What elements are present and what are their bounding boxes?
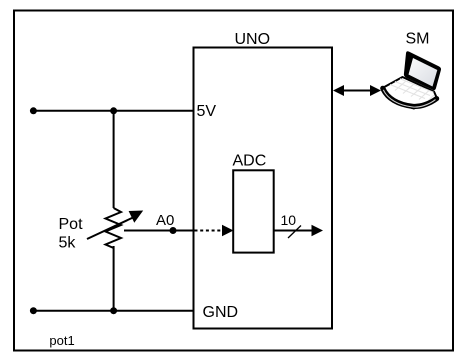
laptop base deck xyxy=(383,77,438,109)
laptop key grid xyxy=(390,79,434,102)
block UNO xyxy=(194,48,333,329)
svg-text:Pot: Pot xyxy=(59,216,84,233)
potentiometer pot1 body zigzag xyxy=(106,208,122,248)
wire UNO to serial monitor (double arrow) xyxy=(333,85,381,96)
wire wiper to A0 xyxy=(124,230,194,232)
wire pot bottom lead xyxy=(113,246,115,311)
wire dashed A0 to ADC input xyxy=(195,230,224,232)
wire GND rail xyxy=(33,310,193,312)
svg-text:10: 10 xyxy=(281,212,297,228)
laptop screen xyxy=(409,58,438,87)
wire 5V rail xyxy=(33,110,193,112)
svg-text:GND: GND xyxy=(203,304,239,321)
svg-text:5k: 5k xyxy=(59,235,77,252)
svg-text:pot1: pot1 xyxy=(49,333,74,348)
junction 5V/pot top xyxy=(110,107,117,114)
svg-text:ADC: ADC xyxy=(233,153,267,170)
svg-text:SM: SM xyxy=(406,31,430,48)
junction GND/pot bottom xyxy=(110,307,117,314)
laptop front band highlight xyxy=(383,90,435,107)
block ADC U2 xyxy=(233,170,274,252)
svg-text:UNO: UNO xyxy=(235,31,271,48)
svg-text:A0: A0 xyxy=(156,212,174,229)
wire pot top lead xyxy=(113,111,115,208)
node terminal left 5V xyxy=(30,107,37,114)
laptop lid xyxy=(404,51,441,90)
junction A0 node xyxy=(170,227,177,234)
potentiometer arrow (variable marking) xyxy=(87,211,143,240)
wire ADC output bus xyxy=(274,230,312,232)
bus width slash xyxy=(288,226,301,239)
node terminal left GND xyxy=(30,307,37,314)
laptop front band xyxy=(383,88,437,106)
svg-text:5V: 5V xyxy=(197,103,217,120)
laptop icon SM (serial monitor) xyxy=(383,51,442,108)
